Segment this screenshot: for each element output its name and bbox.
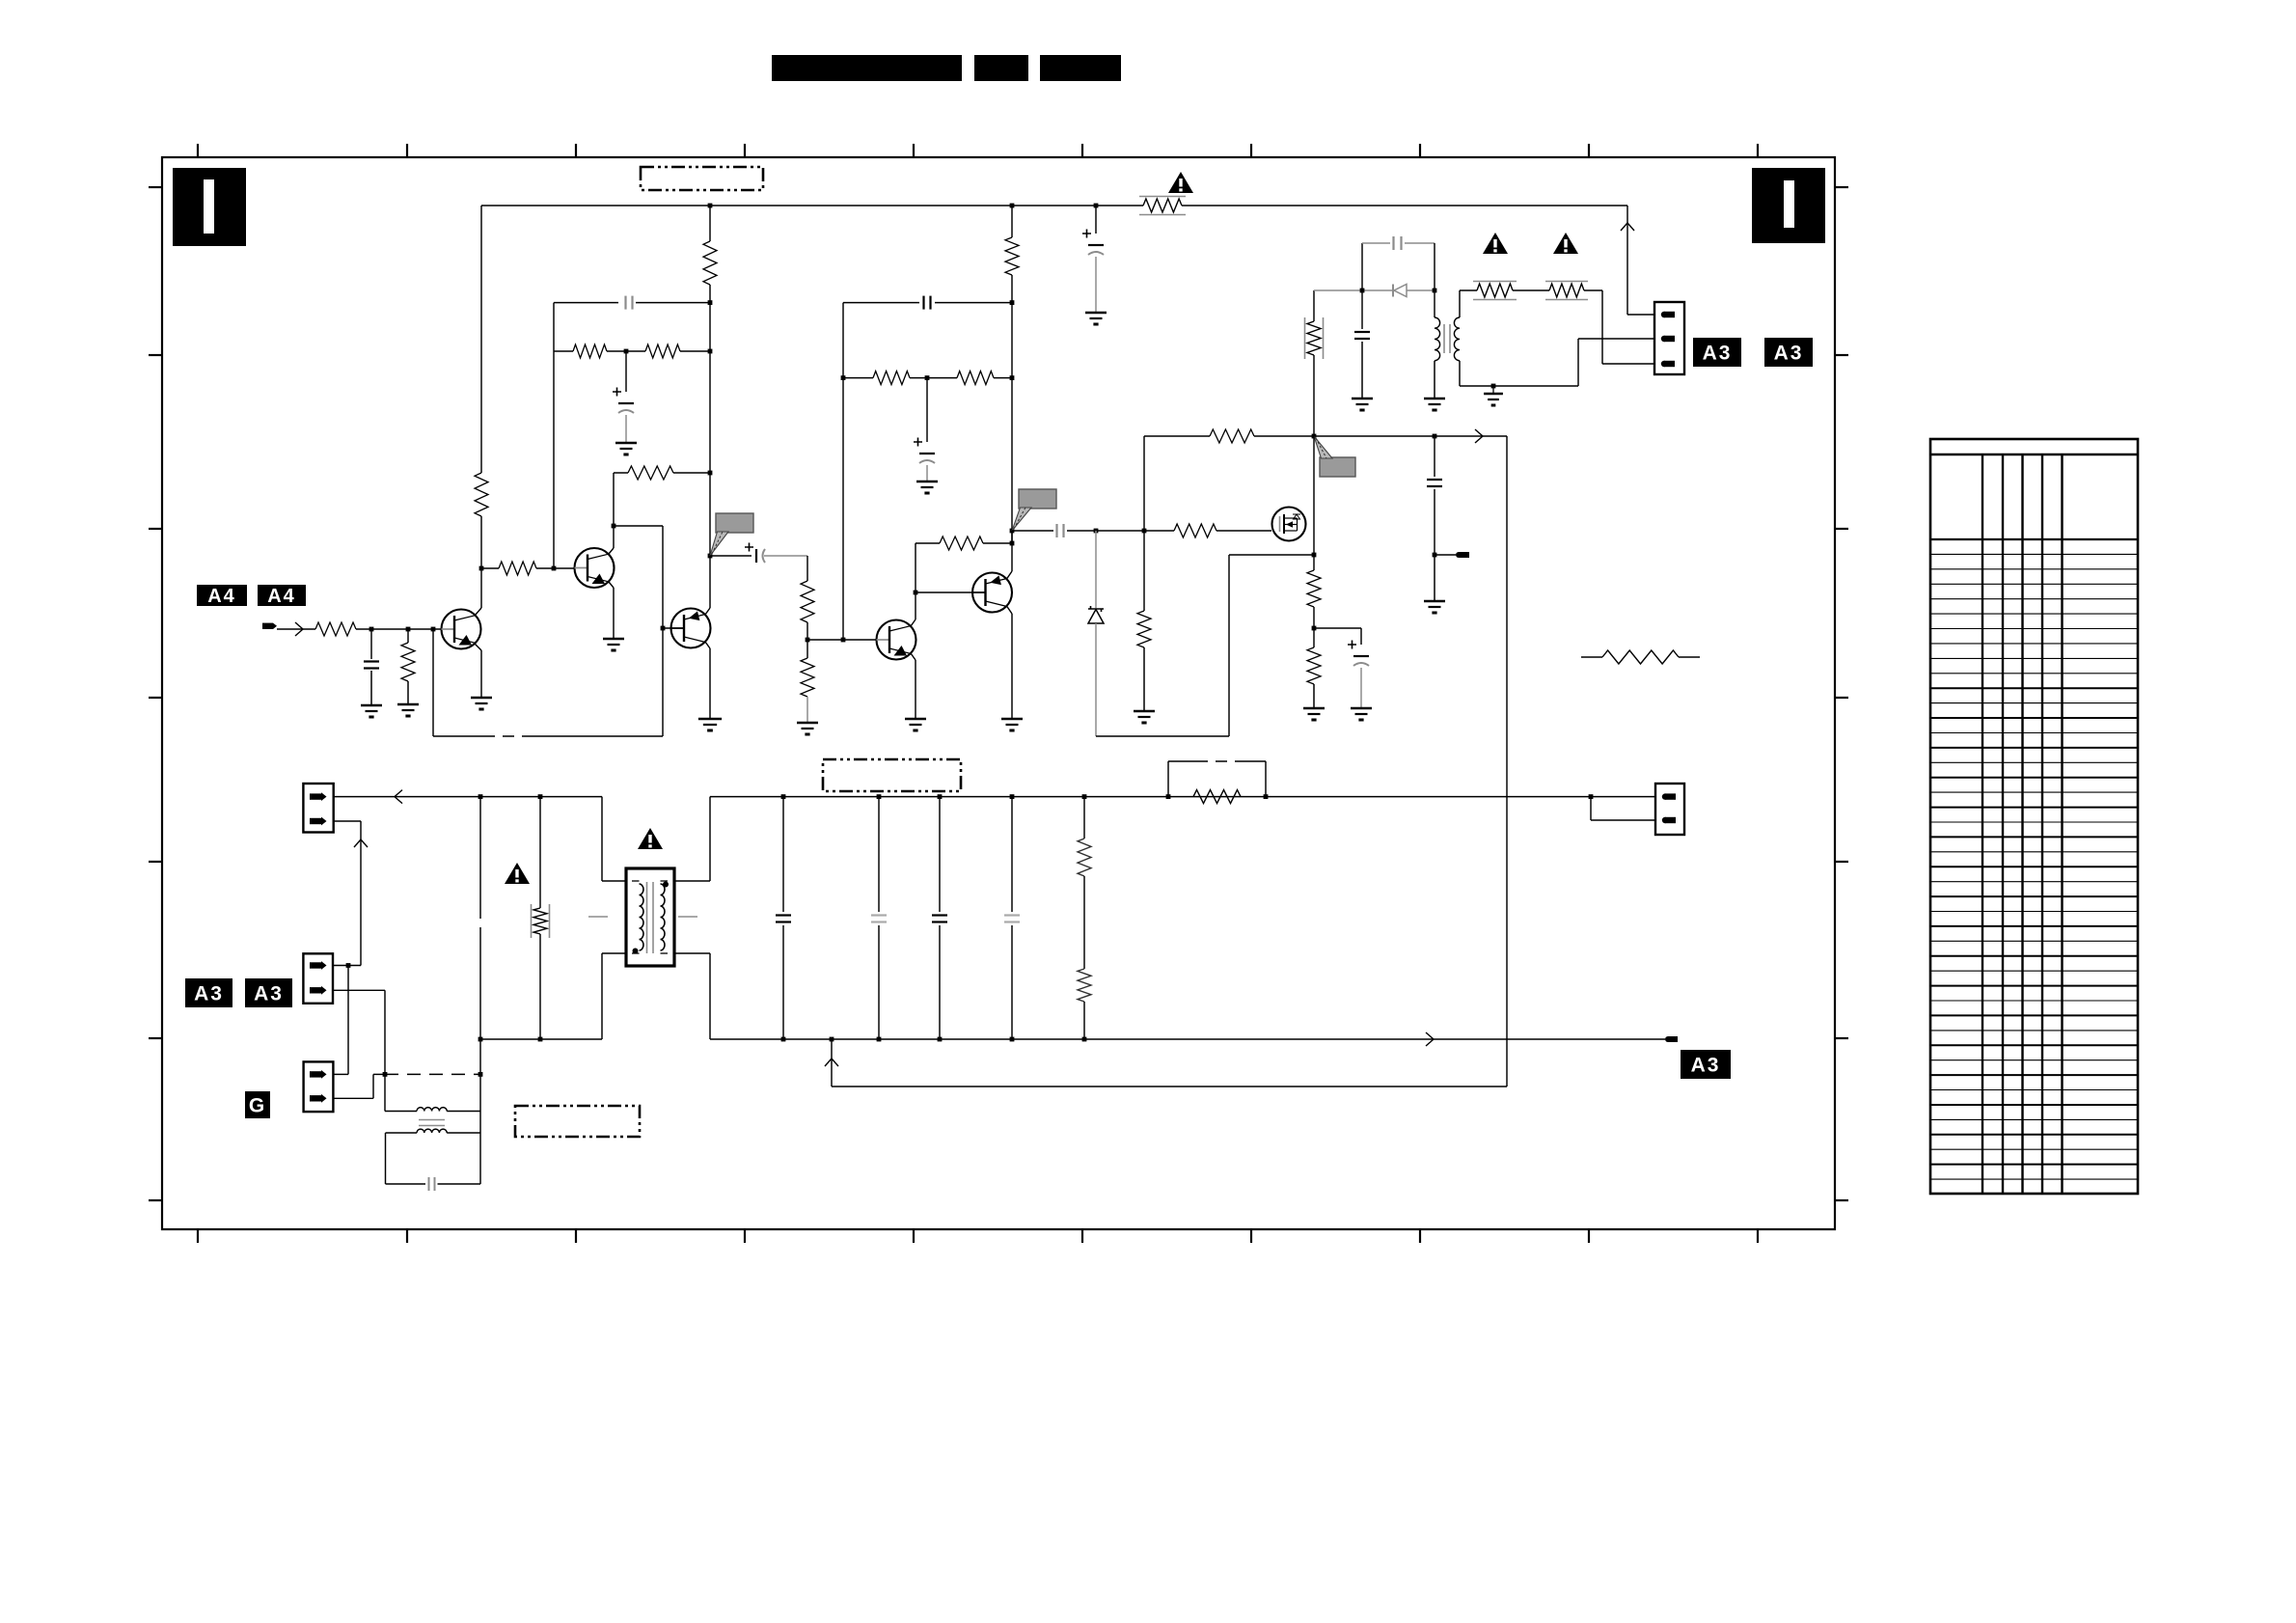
capacitor C1 (electrolytic)	[1082, 230, 1091, 238]
wire res row stage2	[843, 377, 873, 379]
warning triangle (mains transformer)	[638, 828, 663, 849]
wire bottom bus left	[480, 1038, 602, 1040]
capacitor C4	[364, 660, 379, 662]
wire x560 col top	[539, 797, 541, 908]
ground (Q1 emitter)	[471, 697, 492, 700]
resistor R11 (chain bottom)	[801, 658, 814, 697]
resistor R20	[1307, 647, 1321, 684]
wire x560 col bottom	[539, 934, 541, 1039]
label A3 (connector CN1, left)	[1693, 338, 1741, 367]
ground (C4)	[361, 704, 382, 707]
resistor R21 (fusible vertical)	[1307, 321, 1321, 355]
wire cap row stage1	[554, 302, 618, 304]
connector CN4 (degauss G)	[304, 1061, 334, 1112]
border frame	[162, 157, 1835, 1229]
node snubber right	[1433, 289, 1437, 293]
node Q3 collector	[914, 591, 918, 595]
arrow row452	[1475, 429, 1483, 443]
wire T2 secondary top	[1459, 290, 1461, 317]
node x1049 cap row	[1010, 300, 1015, 305]
label A4 (input, left)	[197, 585, 247, 606]
wire Q3 emitter	[911, 653, 916, 660]
sheet marker I (top-right)	[1752, 168, 1825, 243]
wire return down	[831, 1039, 833, 1087]
ground (C9)	[1424, 600, 1445, 603]
resistor R2 (Q1 collector load)	[475, 473, 488, 516]
node degauss	[383, 1072, 388, 1077]
ground (Q4)	[1001, 718, 1023, 721]
svg-text:A3: A3	[1774, 343, 1804, 365]
node res row right	[1010, 375, 1015, 380]
transistor Q2b	[671, 609, 711, 648]
wire bottom bus right	[710, 1038, 1665, 1040]
node x560 bus2	[538, 1037, 543, 1042]
diode D1 (zener)	[1095, 531, 1097, 608]
wire feedback up	[662, 628, 664, 736]
wire CN3 pin1	[333, 965, 361, 967]
sheet marker I (top-left)	[173, 168, 246, 246]
test point stub	[1435, 554, 1456, 556]
wire Q3 base row	[807, 639, 877, 641]
transformer T2 secondary winding	[1454, 317, 1460, 361]
wire cap row3 left	[1012, 530, 1053, 532]
label A3 (mains, right)	[245, 978, 292, 1007]
capacitor C15 column	[878, 797, 880, 912]
wire to CN1 pin2	[1577, 339, 1579, 386]
wire Q5 drain	[1313, 436, 1315, 555]
wire row3 to R16	[1144, 530, 1174, 532]
jumper loop over R25	[1167, 761, 1169, 797]
wire C7 column	[926, 378, 928, 442]
resistor R12	[873, 371, 910, 385]
wire C9 to ground	[1434, 555, 1435, 600]
wire x499 to Q1	[480, 516, 482, 608]
warning triangle (snubber left)	[1483, 233, 1508, 254]
svg-text:G: G	[249, 1095, 266, 1117]
wire flag cap row	[710, 555, 752, 557]
wire Q2 collector	[609, 548, 614, 554]
resistor R25 (inrush)	[1193, 790, 1241, 804]
capacitor C6 (stage2 feedback)	[922, 296, 924, 310]
capacitor C2 (stage1 feedback)	[624, 296, 626, 310]
node C14 bottom	[781, 1037, 786, 1042]
wire Q3c up	[915, 543, 916, 592]
wire Q2b collector down	[705, 642, 710, 648]
wire C3 to ground	[625, 415, 627, 442]
resistor R22 (fusible)	[1477, 284, 1513, 297]
ground (chain)	[797, 722, 818, 725]
node Q2b base	[661, 626, 666, 631]
wire zener loop to source	[1229, 554, 1314, 556]
wire snubber left vert bottom	[1313, 355, 1315, 436]
node degauss right	[478, 1072, 483, 1077]
parts table grid	[1930, 439, 2138, 1194]
MOSFET Q5	[1272, 508, 1306, 541]
ground (C12)	[1352, 398, 1373, 400]
wire x874 vertical	[842, 303, 844, 640]
arrow input	[295, 622, 303, 636]
wire snubber left vert top	[1313, 290, 1315, 321]
wire Q2 emitter	[609, 582, 614, 588]
node x736 cap row	[708, 300, 713, 305]
node x736 flag	[708, 554, 713, 559]
svg-text:A3: A3	[1703, 343, 1733, 365]
capacitor C12	[1354, 331, 1370, 333]
wire row490	[614, 472, 628, 474]
node Q5 source	[1312, 553, 1317, 558]
wire R8 ground	[407, 681, 409, 703]
wire degauss dashed	[385, 1073, 480, 1075]
node live-974	[938, 794, 943, 799]
wire R22-R23	[1513, 289, 1549, 291]
node Q2 collector	[612, 524, 616, 529]
wire return across	[832, 1086, 1507, 1087]
wire R6 left	[481, 567, 499, 569]
wire C4 column	[370, 629, 372, 659]
wire snubber row	[1314, 289, 1393, 291]
transformer T1 core	[646, 882, 648, 953]
wire R6 right	[536, 567, 574, 569]
wire R17 segs	[1143, 531, 1145, 611]
connector CN5 (mains input top)	[303, 784, 333, 833]
wire res row stage1 left	[554, 350, 573, 352]
node zener top	[1094, 529, 1099, 534]
probe flag F2	[1019, 489, 1056, 509]
node Q2 base	[552, 566, 557, 571]
node live-1211	[1166, 794, 1171, 799]
ground (R20)	[1303, 707, 1325, 710]
arrow up (pin1 wire)	[1621, 223, 1634, 231]
resistor R19 (source)	[1307, 570, 1321, 607]
connector CN3 (A3 mains)	[303, 953, 333, 1004]
degauss core	[419, 1119, 445, 1121]
wire C10 ground	[1360, 668, 1362, 707]
frame tick marks	[197, 144, 199, 157]
wire Q3 collector	[911, 619, 916, 626]
node res row left	[841, 375, 846, 380]
transistor Q4	[972, 573, 1012, 613]
wire T2 primary to ground	[1434, 361, 1435, 398]
label A4 (input, right)	[258, 585, 306, 606]
capacitor C5 (electrolytic coupling)	[745, 543, 753, 552]
wire x1049 top	[1011, 206, 1013, 237]
transformer T1 dots	[663, 882, 669, 888]
node live-1124	[1082, 794, 1087, 799]
node snubber left	[1360, 289, 1365, 293]
node live-1312	[1264, 794, 1269, 799]
wire Q4 collector up	[1007, 571, 1013, 579]
diode D2	[1392, 285, 1394, 297]
node flag2	[1010, 529, 1015, 534]
capacitor C7 (electrolytic)	[914, 438, 922, 447]
dashed label box (top)	[641, 167, 763, 190]
wire live bus right	[710, 796, 1591, 798]
arrow bottom bus	[1426, 1032, 1434, 1046]
wire to CN1 pin3	[1601, 290, 1603, 364]
node bus-1049	[1010, 204, 1015, 208]
resistor R6 (Q2 base)	[499, 562, 536, 575]
wire C3 column	[625, 351, 627, 392]
resistor R4	[573, 344, 607, 358]
ground (T2 primary)	[1424, 398, 1445, 400]
node source divider	[1312, 626, 1317, 631]
resistor R15 (x1049 top)	[1005, 237, 1019, 275]
wire Q2c to Q2b base	[614, 525, 663, 527]
node live-911	[877, 794, 882, 799]
wire x574 vertical	[553, 303, 555, 568]
resistor R7 (input series)	[315, 622, 356, 636]
ground (secondary)	[1484, 393, 1503, 396]
wire coil1 lead	[385, 1111, 417, 1113]
resistor R17 (gate pulldown)	[1137, 611, 1151, 647]
wire CN3 pin2	[333, 989, 385, 991]
wire cap row stage2	[843, 302, 919, 304]
wire Q2c up	[613, 473, 615, 526]
title block 2	[974, 55, 1028, 81]
resistor R24 (isolated)	[1581, 656, 1602, 658]
node C9 bottom	[1433, 553, 1437, 558]
wire C12 column	[1361, 290, 1363, 329]
wire degauss col down	[384, 1074, 386, 1111]
node x498 bus2	[478, 1037, 483, 1042]
wire T1 right bottom	[674, 952, 710, 954]
warning triangle (snubber right)	[1553, 233, 1578, 254]
wire bus to CN1 pin1	[1626, 206, 1628, 315]
node input C	[369, 627, 374, 632]
node bus-1136	[1094, 204, 1099, 208]
wire snubber loop	[1361, 243, 1363, 290]
wire CN4 pin1	[333, 1073, 348, 1075]
node live-1049b	[1010, 794, 1015, 799]
ground (Q2b)	[698, 718, 722, 721]
wire row452 corner	[1143, 436, 1145, 531]
wire B+ down long	[1506, 436, 1508, 1087]
title block 3	[1040, 55, 1121, 81]
probe flag F1	[716, 513, 753, 533]
wire chain segs	[806, 622, 808, 658]
wire T1 left top	[601, 797, 603, 881]
wire feedback down	[432, 629, 434, 736]
wire cap to ground	[1095, 257, 1097, 312]
warning triangle (top bus)	[1168, 172, 1193, 193]
arrow live bus	[395, 790, 402, 804]
wire R23 to corner	[1584, 289, 1602, 291]
node CN3 pin1	[346, 963, 351, 968]
node C16 bottom	[938, 1037, 943, 1042]
label A3 (connector CN1, right)	[1764, 338, 1813, 367]
resistor R9 (row490)	[628, 466, 673, 480]
ground (C10)	[1351, 707, 1372, 710]
resistor R10 (chain top)	[801, 581, 814, 622]
wire R20 segs	[1313, 628, 1315, 647]
node row563 right	[1010, 541, 1015, 546]
wire x498 col	[479, 797, 481, 906]
node C15 bottom	[877, 1037, 882, 1042]
node Q3 base row	[841, 638, 846, 643]
transformer T1 right winding	[661, 880, 669, 882]
capacitor C3 (electrolytic)	[613, 388, 621, 397]
wire input	[277, 628, 315, 630]
wire C5 to chain	[764, 555, 807, 557]
capacitor C9 column	[1434, 436, 1435, 477]
label G (degauss)	[245, 1091, 270, 1118]
svg-text:A3: A3	[1691, 1055, 1721, 1077]
capacitor C11 (snubber)	[1392, 236, 1394, 250]
resistor R1 (fusible, on bus)	[1143, 199, 1182, 212]
wire feedback across (dashed section)	[433, 735, 483, 737]
wire res row stage1 mid	[607, 350, 645, 352]
wire sec ground stub	[1492, 386, 1494, 393]
capacitor C13 (posistor)	[428, 1177, 430, 1191]
wire T1 left bottom	[602, 952, 626, 954]
node input R	[406, 627, 411, 632]
capacitor C8 (coupling)	[1055, 524, 1057, 537]
svg-text:A4: A4	[267, 586, 296, 607]
transformer T1 box	[626, 868, 674, 966]
inductor L2 (posistor coil)	[417, 1129, 447, 1133]
bleeder column	[1083, 797, 1085, 839]
resistor R18 (supply)	[1210, 429, 1254, 443]
wire res row stage1 right	[680, 350, 710, 352]
resistor R23 (fusible)	[1549, 284, 1584, 297]
node R12/R13	[925, 375, 930, 380]
wire T2 secondary bottom	[1459, 361, 1461, 386]
wire top supply bus right	[1182, 205, 1627, 206]
wire zener loop bottom	[1096, 735, 1229, 737]
node bus-736	[708, 204, 713, 208]
transistor Q3	[877, 620, 916, 660]
wire x1049 mid	[1011, 275, 1013, 543]
label A3 (bottom bus)	[1681, 1050, 1731, 1079]
arrow up (neutral)	[354, 839, 368, 847]
svg-text:A4: A4	[207, 586, 236, 607]
node CN2 junction	[1589, 794, 1594, 799]
resistor R26 (fusible mains)	[533, 908, 547, 934]
ground (C7)	[916, 481, 938, 483]
resistor R16 (gate series)	[1174, 524, 1216, 537]
node chain mid	[806, 638, 810, 643]
ground (R8)	[397, 703, 419, 706]
wire Q1 collector diag	[475, 608, 481, 616]
title block 1	[772, 55, 962, 81]
ground (R17)	[1134, 710, 1155, 713]
node return	[830, 1037, 834, 1042]
node live-812	[781, 794, 786, 799]
node x736 row490	[708, 471, 713, 476]
wire cap row3 mid	[1067, 530, 1144, 532]
wire R19 to node	[1313, 607, 1315, 628]
wire Q4 base row	[916, 591, 972, 593]
wire to C10	[1314, 627, 1361, 629]
wire live bus left	[334, 796, 602, 798]
node x736 res row	[708, 349, 713, 354]
node R4/R5	[624, 349, 629, 354]
input pin A4	[262, 623, 273, 629]
wire zener loop up	[1228, 555, 1230, 736]
node Q2 base divider	[479, 566, 484, 571]
wire to CN2 pin1	[1591, 796, 1655, 798]
wire Q2b emitter up	[705, 608, 710, 615]
probe flag F3	[1320, 457, 1355, 477]
capacitor C17 column	[1011, 797, 1013, 912]
transformer T2 primary lead	[1434, 290, 1435, 317]
wire T1 right top	[674, 880, 710, 882]
node C17 bottom	[1010, 1037, 1015, 1042]
pin (bottom bus end)	[1668, 1036, 1678, 1042]
transformer T2 primary winding	[1435, 317, 1440, 361]
wire row452 mid	[1254, 435, 1507, 437]
transformer T1 left winding	[632, 880, 640, 882]
wire top supply bus left	[481, 205, 1143, 206]
transformer T2 core	[1443, 324, 1445, 353]
wire to CN2 pin2	[1590, 797, 1592, 820]
ground (C3)	[615, 442, 637, 445]
wire Q4 emitter down	[1007, 606, 1013, 614]
wire input to base	[356, 628, 442, 630]
wire row452 left	[1144, 435, 1210, 437]
warning triangle (mains resistor)	[505, 863, 530, 884]
wire C4 ground	[370, 671, 372, 704]
dashed label box (middle)	[823, 759, 961, 791]
wire down to CN4	[347, 966, 349, 1075]
node live-498	[478, 794, 483, 799]
wire C7 ground	[926, 465, 928, 481]
ground (Q3 emitter)	[905, 718, 926, 721]
wire R8 column	[407, 629, 409, 643]
resistor R8	[401, 643, 415, 681]
ground (Q2 emitter)	[603, 638, 624, 641]
capacitor C14 column	[782, 797, 784, 912]
wire x498 lower	[479, 1039, 481, 1184]
resistor R13	[957, 371, 994, 385]
arrow return	[825, 1059, 838, 1066]
wire source to R19	[1313, 555, 1315, 570]
wire cap column	[1095, 206, 1097, 234]
wire C12 ground	[1361, 342, 1363, 398]
resistor R5	[645, 344, 680, 358]
wire CN5 pin2 over	[334, 820, 361, 822]
capacitor C16 column	[939, 797, 941, 912]
transistor Q2	[575, 548, 615, 588]
transistor Q1	[442, 610, 481, 649]
dashed label box (bottom)	[515, 1106, 640, 1137]
connector CN2 (2-pin right)	[1655, 784, 1684, 835]
transformer T1 stubs	[588, 916, 608, 918]
node r-col top	[1142, 529, 1147, 534]
connector CN1 (3-pin)	[1654, 302, 1684, 374]
node Q1 base	[431, 627, 436, 632]
node secondary gnd	[1491, 384, 1496, 389]
svg-text:A3: A3	[254, 983, 284, 1005]
wire x499 bus corner down	[480, 206, 482, 473]
svg-text:A3: A3	[194, 983, 224, 1005]
inductor L1 (degauss coil)	[417, 1108, 447, 1112]
wire coil1 right	[447, 1111, 480, 1113]
ground (C1)	[1085, 312, 1107, 315]
wire CN4 pin2	[333, 1097, 373, 1099]
node row452 flag	[1312, 434, 1317, 439]
wire Q1 emitter	[475, 644, 481, 650]
node bleeder bottom	[1082, 1037, 1087, 1042]
wire Q2b base lead	[663, 627, 671, 629]
node row452 cap	[1433, 434, 1437, 439]
capacitor C10 (electrolytic)	[1348, 641, 1356, 649]
resistor R14 (interstage)	[940, 536, 983, 550]
wire R16 to gate	[1216, 530, 1271, 532]
wire row563	[916, 542, 940, 544]
posistor box	[386, 1132, 418, 1134]
node live-560	[538, 794, 543, 799]
